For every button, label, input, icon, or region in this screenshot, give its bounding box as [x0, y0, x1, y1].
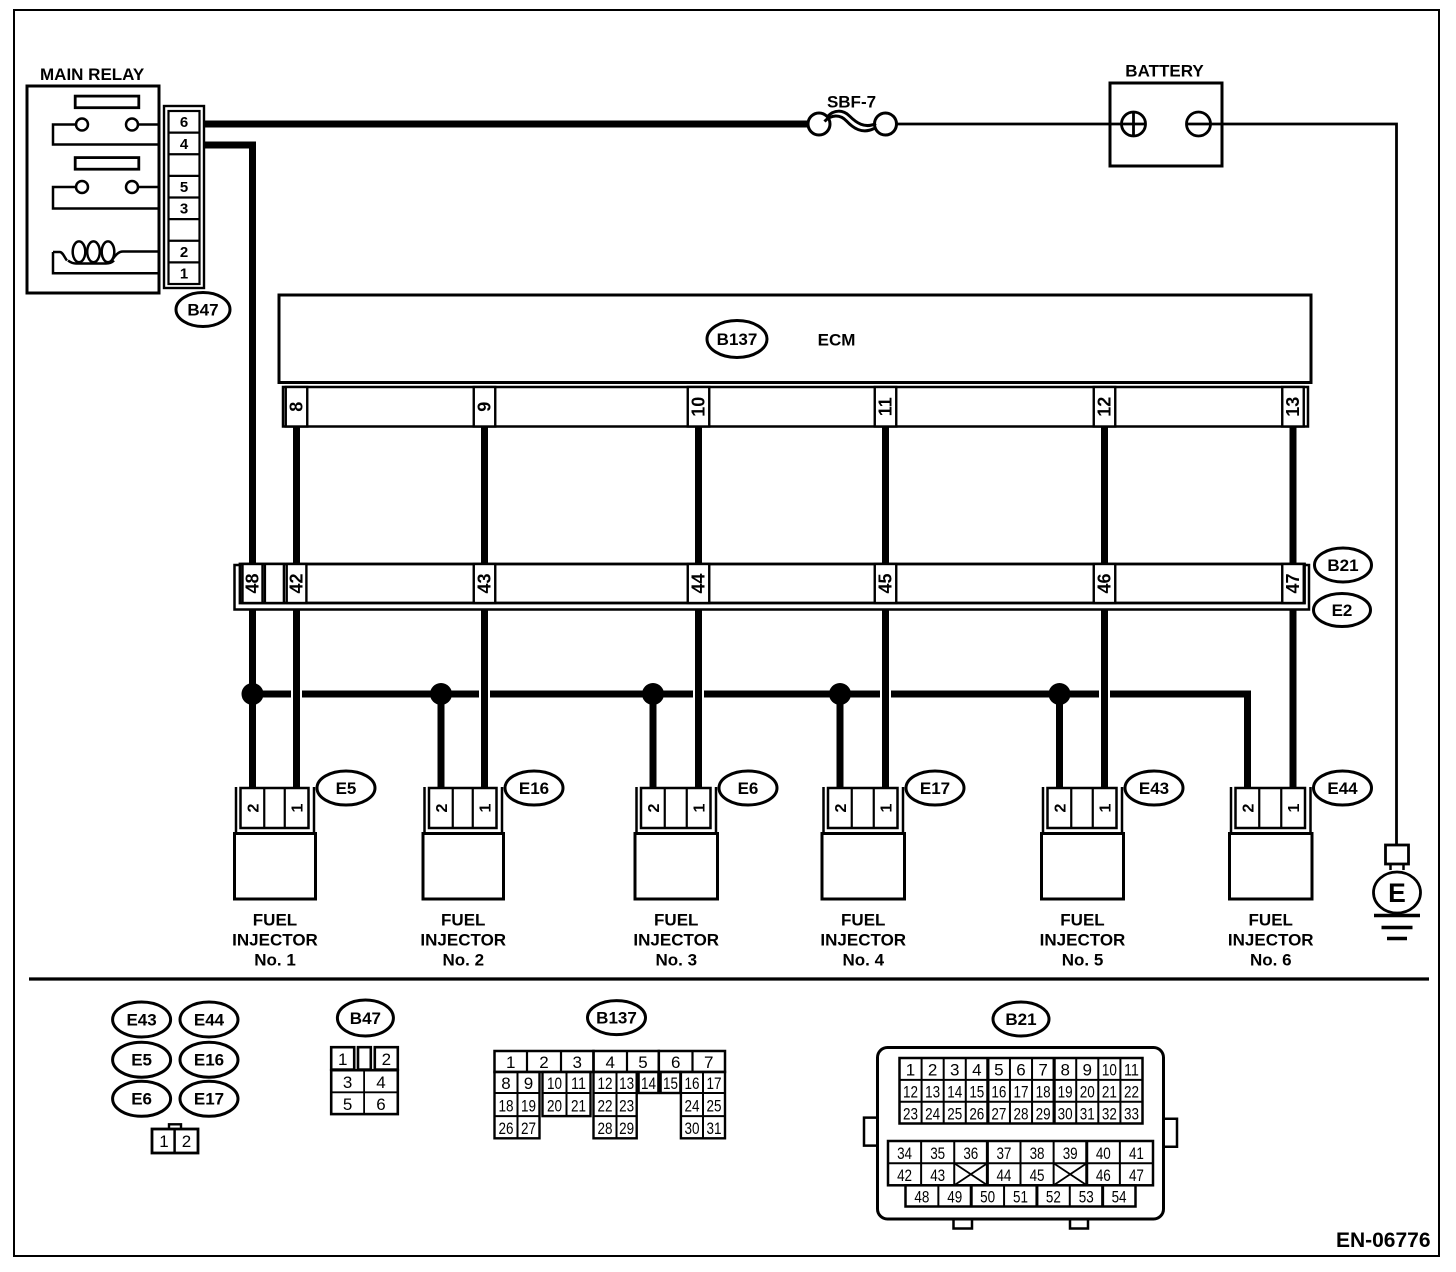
battery: [1110, 62, 1222, 167]
svg-text:12: 12: [903, 1083, 918, 1102]
svg-text:32: 32: [1102, 1104, 1117, 1123]
fuel injector No. 4: [822, 787, 905, 899]
ECM box: [279, 295, 1311, 383]
svg-text:2: 2: [646, 803, 663, 812]
svg-text:MAIN RELAY: MAIN RELAY: [40, 65, 145, 84]
battery - terminal: [1187, 112, 1211, 136]
wire: relay pin 4 to joint connector B21 pin 48: [204, 145, 253, 564]
svg-text:17: 17: [707, 1074, 722, 1093]
oval label B47: [176, 293, 230, 327]
svg-text:3: 3: [950, 1061, 959, 1080]
legend oval E43: [113, 1002, 171, 1037]
svg-text:34: 34: [897, 1144, 912, 1163]
svg-text:BATTERY: BATTERY: [1125, 62, 1204, 81]
svg-text:INJECTOR: INJECTOR: [1040, 931, 1126, 950]
svg-text:20: 20: [1080, 1083, 1095, 1102]
injector 2 connector E16 pins: [429, 788, 497, 828]
svg-text:FUEL: FUEL: [1060, 911, 1104, 930]
injector 3 connector E6 pins: [641, 788, 711, 828]
svg-text:2: 2: [382, 1050, 391, 1069]
svg-text:6: 6: [376, 1095, 385, 1114]
svg-text:1: 1: [290, 803, 307, 812]
legend oval E16: [180, 1042, 238, 1077]
svg-text:7: 7: [704, 1053, 713, 1072]
svg-text:2: 2: [539, 1053, 548, 1072]
oval label B21: [1315, 548, 1372, 582]
svg-text:6: 6: [1016, 1061, 1025, 1080]
svg-text:3: 3: [573, 1053, 582, 1072]
wire relay contact 1 to pin 4: [53, 125, 161, 145]
svg-text:E: E: [1388, 878, 1406, 908]
svg-text:48: 48: [914, 1188, 929, 1207]
svg-text:9: 9: [475, 402, 495, 412]
legend oval E44: [180, 1002, 238, 1037]
svg-text:1: 1: [478, 803, 495, 812]
svg-text:52: 52: [1046, 1188, 1061, 1207]
svg-text:B21: B21: [1327, 556, 1358, 575]
svg-text:INJECTOR: INJECTOR: [1228, 931, 1314, 950]
svg-text:11: 11: [571, 1074, 586, 1093]
svg-text:41: 41: [1129, 1144, 1144, 1163]
wire relay contact 2 to pin 3: [53, 187, 161, 209]
svg-text:E6: E6: [738, 779, 759, 798]
svg-text:25: 25: [707, 1096, 722, 1115]
svg-text:36: 36: [963, 1144, 978, 1163]
svg-text:2: 2: [1053, 803, 1070, 812]
svg-text:42: 42: [897, 1166, 912, 1185]
ground bus wire: [253, 694, 1248, 790]
svg-text:E43: E43: [1139, 779, 1169, 798]
injector 6 label: [1228, 911, 1314, 970]
svg-text:44: 44: [689, 573, 709, 593]
svg-text:27: 27: [991, 1104, 1006, 1123]
svg-text:30: 30: [685, 1119, 700, 1138]
relay coil: [53, 241, 161, 273]
ECM connector row B137: [283, 387, 1308, 427]
svg-text:49: 49: [947, 1188, 962, 1207]
wire: battery - to ground E: [1211, 124, 1397, 845]
svg-text:40: 40: [1096, 1144, 1111, 1163]
injector 1 label: [232, 911, 318, 970]
svg-text:51: 51: [1013, 1188, 1028, 1207]
junction dots: [242, 683, 1071, 705]
legend oval E5: [113, 1042, 171, 1077]
ECM pin 12: [1094, 387, 1116, 427]
svg-text:1: 1: [159, 1132, 168, 1151]
legend injector connector pinout (1,2): [152, 1124, 198, 1153]
relay contact points row 1: [76, 119, 138, 131]
svg-text:1: 1: [1098, 803, 1115, 812]
svg-text:1: 1: [180, 266, 188, 283]
svg-text:2: 2: [1241, 803, 1258, 812]
svg-text:45: 45: [876, 573, 896, 593]
svg-text:4: 4: [376, 1073, 385, 1092]
svg-text:27: 27: [521, 1119, 536, 1138]
svg-text:E16: E16: [519, 779, 549, 798]
ECM pin 9: [474, 387, 496, 427]
svg-text:E2: E2: [1332, 601, 1353, 620]
svg-text:28: 28: [598, 1119, 613, 1138]
svg-text:24: 24: [685, 1096, 700, 1115]
svg-text:INJECTOR: INJECTOR: [420, 931, 506, 950]
svg-text:10: 10: [547, 1074, 562, 1093]
oval label E17: [906, 771, 964, 805]
legend oval B47: [337, 1000, 393, 1036]
ground symbol: [1374, 916, 1420, 939]
svg-text:47: 47: [1283, 573, 1303, 593]
legend oval B137: [588, 1001, 646, 1035]
oval label E2: [1314, 594, 1371, 627]
injector 6 connector E44 pins: [1236, 788, 1306, 828]
wire relay contact 1 to pin 6: [138, 123, 161, 126]
svg-text:23: 23: [903, 1104, 918, 1123]
svg-text:3: 3: [180, 201, 188, 218]
svg-text:53: 53: [1079, 1188, 1094, 1207]
svg-text:35: 35: [930, 1144, 945, 1163]
svg-text:8: 8: [1060, 1061, 1069, 1080]
svg-text:9: 9: [1083, 1061, 1092, 1080]
svg-text:31: 31: [1080, 1104, 1095, 1123]
svg-text:FUEL: FUEL: [441, 911, 485, 930]
wires: connector B21/E2 pins 42-47 to injector pin 1: [297, 610, 1294, 791]
oval label E5: [317, 771, 375, 805]
B21 pin 47: [1282, 564, 1304, 603]
fuel injector No. 1: [235, 787, 316, 899]
svg-text:23: 23: [619, 1096, 634, 1115]
svg-text:E6: E6: [131, 1090, 152, 1109]
svg-text:E16: E16: [194, 1051, 224, 1070]
svg-text:No. 2: No. 2: [442, 951, 484, 970]
fuse SBF-7: [808, 93, 897, 136]
svg-text:20: 20: [547, 1096, 562, 1115]
svg-text:2: 2: [180, 244, 188, 261]
svg-text:47: 47: [1129, 1166, 1144, 1185]
svg-text:48: 48: [243, 573, 263, 593]
svg-text:1: 1: [1286, 803, 1303, 812]
wires: ECM pins 8-13 to connector B21 pins 42-47: [297, 427, 1294, 565]
svg-text:50: 50: [980, 1188, 995, 1207]
wire: fuse SBF-7 to battery +: [897, 123, 1123, 126]
connector B47 (main relay): [164, 106, 204, 288]
svg-text:38: 38: [1030, 1144, 1045, 1163]
legend connector B21 pin grid middle: [888, 1141, 1153, 1185]
legend oval E6: [113, 1081, 171, 1116]
svg-text:1: 1: [506, 1053, 515, 1072]
svg-text:E44: E44: [1327, 779, 1358, 798]
svg-text:30: 30: [1058, 1104, 1073, 1123]
relay contact points row 2: [76, 181, 138, 193]
wire: relay pin 6 to fuse SBF-7 (battery feed): [204, 121, 809, 128]
svg-text:13: 13: [1283, 397, 1303, 417]
svg-text:9: 9: [524, 1074, 533, 1093]
ECM pin 10: [688, 387, 710, 427]
svg-text:22: 22: [598, 1096, 613, 1115]
svg-text:18: 18: [1036, 1083, 1051, 1102]
svg-text:10: 10: [689, 397, 709, 417]
svg-text:43: 43: [475, 573, 495, 593]
legend connector B21 pin grid bottom: [906, 1185, 1136, 1206]
svg-text:2: 2: [246, 803, 263, 812]
B21 pin 44: [688, 564, 710, 603]
svg-text:21: 21: [571, 1096, 586, 1115]
svg-text:19: 19: [1058, 1083, 1073, 1102]
svg-text:2: 2: [434, 803, 451, 812]
svg-text:FUEL: FUEL: [253, 911, 297, 930]
injector 4 label: [820, 911, 906, 970]
fuel injector No. 2: [423, 787, 504, 899]
svg-text:2: 2: [182, 1132, 191, 1151]
svg-text:26: 26: [969, 1104, 984, 1123]
svg-text:B21: B21: [1005, 1010, 1036, 1029]
svg-text:46: 46: [1096, 1166, 1111, 1185]
legend oval E17: [180, 1081, 238, 1116]
svg-text:45: 45: [1030, 1166, 1045, 1185]
svg-text:E5: E5: [131, 1051, 152, 1070]
svg-text:E5: E5: [336, 779, 357, 798]
svg-text:2: 2: [833, 803, 850, 812]
svg-text:13: 13: [925, 1083, 940, 1102]
svg-text:46: 46: [1095, 573, 1115, 593]
relay contact bar 1: [75, 96, 139, 108]
svg-text:25: 25: [947, 1104, 962, 1123]
svg-text:4: 4: [606, 1053, 615, 1072]
B21 pin 45: [875, 564, 897, 603]
svg-text:54: 54: [1112, 1188, 1127, 1207]
injector 5 label: [1040, 911, 1126, 970]
svg-text:5: 5: [343, 1095, 352, 1114]
svg-text:6: 6: [671, 1053, 680, 1072]
wire: B21 pin 48 down to ground bus: [249, 610, 256, 695]
svg-text:5: 5: [994, 1061, 1003, 1080]
svg-text:15: 15: [969, 1083, 984, 1102]
svg-text:No. 6: No. 6: [1250, 951, 1292, 970]
svg-text:29: 29: [1036, 1104, 1051, 1123]
injector 3 label: [633, 911, 719, 970]
svg-text:4: 4: [180, 136, 189, 153]
svg-text:28: 28: [1014, 1104, 1029, 1123]
svg-text:26: 26: [499, 1119, 514, 1138]
svg-text:E44: E44: [194, 1010, 225, 1029]
svg-text:18: 18: [499, 1096, 514, 1115]
svg-text:INJECTOR: INJECTOR: [633, 931, 719, 950]
svg-text:SBF-7: SBF-7: [827, 93, 876, 112]
wire relay contact 2 to pin 5: [138, 186, 161, 189]
svg-text:FUEL: FUEL: [841, 911, 885, 930]
svg-text:14: 14: [641, 1074, 656, 1093]
svg-text:16: 16: [991, 1083, 1006, 1102]
oval label B137: [707, 321, 767, 358]
svg-text:No. 4: No. 4: [842, 951, 884, 970]
svg-text:7: 7: [1038, 1061, 1047, 1080]
svg-text:No. 3: No. 3: [655, 951, 697, 970]
oval label E43: [1125, 771, 1183, 805]
svg-text:16: 16: [685, 1074, 700, 1093]
svg-text:8: 8: [287, 402, 307, 412]
svg-text:11: 11: [876, 397, 896, 416]
svg-text:31: 31: [707, 1119, 722, 1138]
svg-text:5: 5: [638, 1053, 647, 1072]
svg-text:11: 11: [1124, 1061, 1139, 1080]
svg-text:12: 12: [598, 1074, 613, 1093]
B21 pin 42: [287, 564, 307, 603]
B21 pin 48: [243, 564, 263, 603]
svg-text:8: 8: [501, 1074, 510, 1093]
svg-text:1: 1: [692, 803, 709, 812]
oval label E16: [505, 771, 563, 805]
injector 1 connector E5 pins: [241, 788, 309, 828]
fuel injector No. 3: [635, 787, 718, 899]
svg-text:10: 10: [1102, 1061, 1117, 1080]
svg-text:6: 6: [180, 114, 188, 131]
B21 pin 46: [1094, 564, 1116, 603]
injector 5 connector E43 pins: [1048, 788, 1117, 828]
svg-text:39: 39: [1063, 1144, 1078, 1163]
svg-text:24: 24: [925, 1104, 940, 1123]
svg-text:3: 3: [343, 1073, 352, 1092]
svg-text:14: 14: [947, 1083, 962, 1102]
svg-text:E17: E17: [194, 1090, 224, 1109]
ECM pin 13: [1282, 387, 1304, 427]
svg-text:1: 1: [879, 803, 896, 812]
battery + terminal: [1122, 112, 1146, 136]
ECM pin 8: [286, 387, 308, 427]
svg-text:37: 37: [996, 1144, 1011, 1163]
svg-text:44: 44: [996, 1166, 1011, 1185]
svg-text:43: 43: [930, 1166, 945, 1185]
connector strip E2 (outline): [235, 565, 1310, 610]
oval label E44: [1314, 771, 1372, 805]
svg-text:4: 4: [972, 1061, 981, 1080]
injector 2 label: [420, 911, 506, 970]
svg-text:15: 15: [663, 1074, 678, 1093]
svg-text:21: 21: [1102, 1083, 1117, 1102]
fuel injector No. 6: [1230, 787, 1313, 899]
svg-text:33: 33: [1124, 1104, 1139, 1123]
svg-text:13: 13: [619, 1074, 634, 1093]
svg-text:42: 42: [287, 573, 307, 593]
svg-text:B47: B47: [187, 300, 218, 319]
svg-text:12: 12: [1095, 397, 1115, 417]
svg-text:2: 2: [928, 1061, 937, 1080]
relay MAIN RELAY: [27, 65, 159, 293]
legend connector B47 pinout: [331, 1047, 398, 1114]
B21 blank cell: [265, 564, 284, 603]
legend connector B21 pin grid top: [900, 1058, 1143, 1124]
fuel injector No. 5: [1042, 787, 1124, 899]
svg-text:E43: E43: [126, 1010, 156, 1029]
svg-text:ECM: ECM: [818, 331, 856, 350]
svg-text:No. 1: No. 1: [254, 951, 296, 970]
svg-text:EN-06776: EN-06776: [1336, 1229, 1431, 1252]
injector 4 connector E17 pins: [828, 788, 898, 828]
svg-text:1: 1: [338, 1050, 347, 1069]
svg-text:INJECTOR: INJECTOR: [232, 931, 318, 950]
ground connector E: [1374, 845, 1421, 913]
wires: bus to injector pin 2: [253, 694, 1060, 790]
svg-text:FUEL: FUEL: [654, 911, 698, 930]
svg-text:No. 5: No. 5: [1062, 951, 1104, 970]
oval label E6: [719, 771, 777, 805]
legend connector B21 housing: [864, 1048, 1177, 1229]
svg-text:22: 22: [1124, 1083, 1139, 1102]
legend connector B137 pinout: [495, 1051, 726, 1138]
relay contact bar 2: [75, 158, 139, 170]
svg-text:5: 5: [180, 179, 188, 196]
legend oval B21: [993, 1002, 1049, 1036]
svg-text:FUEL: FUEL: [1249, 911, 1293, 930]
svg-text:E17: E17: [920, 779, 950, 798]
svg-text:INJECTOR: INJECTOR: [820, 931, 906, 950]
ECM pin 11: [875, 387, 897, 427]
svg-text:B137: B137: [596, 1008, 637, 1027]
svg-text:29: 29: [619, 1119, 634, 1138]
B21 pin 43: [474, 564, 496, 603]
svg-text:1: 1: [906, 1061, 915, 1080]
svg-text:17: 17: [1014, 1083, 1029, 1102]
svg-text:B137: B137: [717, 330, 758, 349]
svg-text:B47: B47: [350, 1009, 381, 1028]
connector strip B21: [240, 564, 1305, 603]
svg-text:19: 19: [521, 1096, 536, 1115]
